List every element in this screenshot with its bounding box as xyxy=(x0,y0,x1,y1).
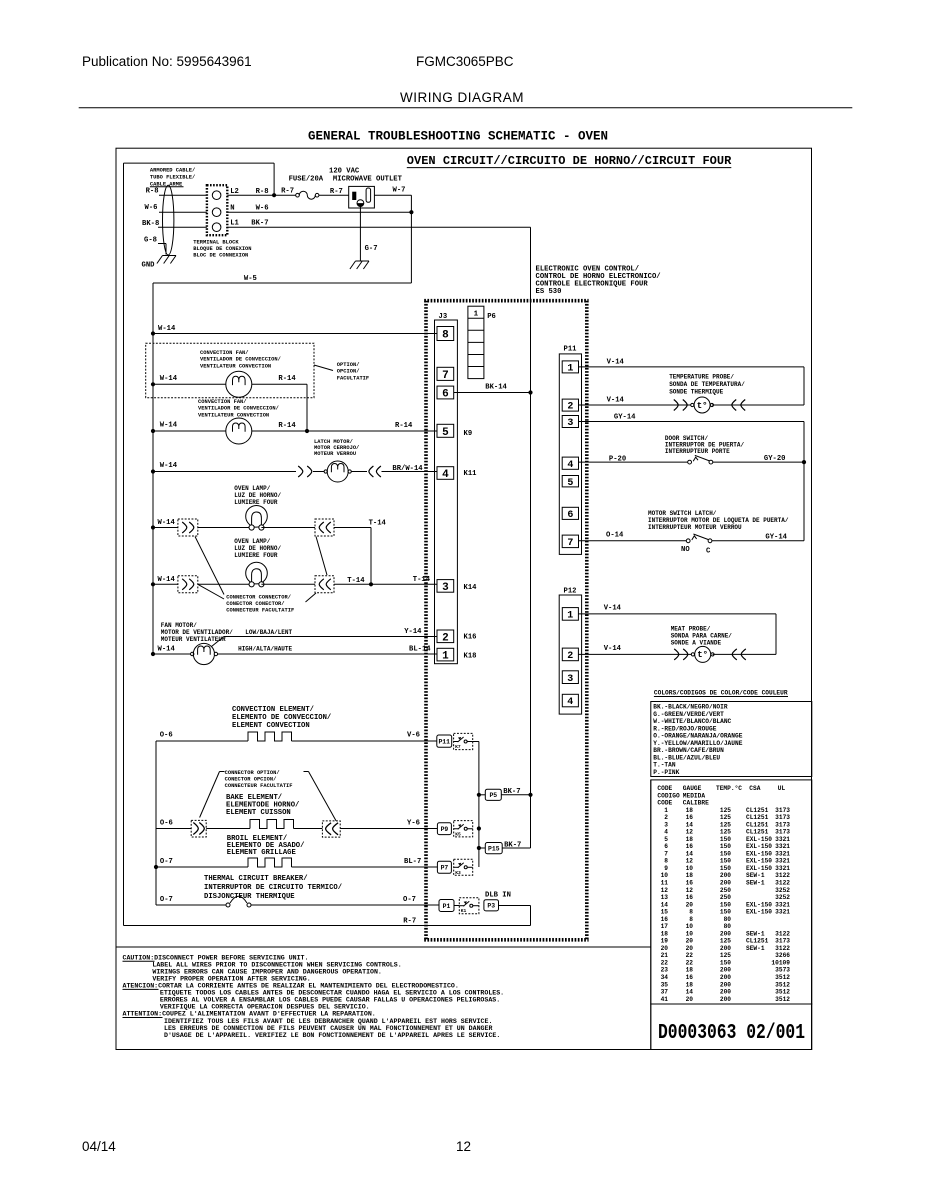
svg-text:1: 1 xyxy=(442,651,449,663)
svg-text:SEW-1: SEW-1 xyxy=(746,945,765,952)
svg-text:9: 9 xyxy=(664,865,668,872)
120 VAC microwave outlet xyxy=(329,168,403,209)
wire W-7 outlet to right vertical xyxy=(374,187,411,283)
J3 pin designator K14 xyxy=(464,584,478,592)
svg-text:CALIBRE: CALIBRE xyxy=(683,800,709,807)
wire O-6 to bake connector xyxy=(156,820,191,829)
svg-text:ATENCION:CORTAR LA CORRIENTE A: ATENCION:CORTAR LA CORRIENTE ANTES DE RE… xyxy=(123,983,459,990)
wire to lamp 2 xyxy=(198,583,252,585)
heating element: broil element xyxy=(248,858,292,867)
svg-text:12: 12 xyxy=(686,887,694,894)
svg-text:ARMORED CABLE/: ARMORED CABLE/ xyxy=(150,168,195,174)
svg-text:CODE: CODE xyxy=(657,800,672,807)
node: O-7 broil branch xyxy=(154,865,158,869)
svg-text:BLOC DE CONNEXION: BLOC DE CONNEXION xyxy=(193,253,248,259)
svg-text:P7: P7 xyxy=(441,865,449,872)
svg-text:18: 18 xyxy=(686,807,694,814)
latch motor label xyxy=(314,439,359,457)
wire GY-14 P11 pin3 xyxy=(579,414,805,541)
page header: WIRING DIAGRAM title xyxy=(400,90,524,105)
svg-text:150: 150 xyxy=(720,901,731,908)
wire T-14 lamp2 to J3 pin 3 xyxy=(334,576,437,585)
heating element: convection element xyxy=(248,732,292,741)
svg-text:CSA: CSA xyxy=(749,785,760,792)
DLB IN label xyxy=(485,892,511,900)
svg-text:BL-14: BL-14 xyxy=(409,646,431,654)
svg-text:ATTENTION:COUPEZ L'ALIMENTATIO: ATTENTION:COUPEZ L'ALIMENTATION AVANT D'… xyxy=(123,1011,376,1018)
svg-text:MOTEUR VERROU: MOTEUR VERROU xyxy=(314,451,356,457)
svg-text:CL1251: CL1251 xyxy=(746,938,769,945)
connector chevrons meat probe right xyxy=(732,649,746,660)
svg-text:3173: 3173 xyxy=(775,814,790,821)
oven lamp 1 label xyxy=(234,485,281,506)
svg-text:1: 1 xyxy=(474,311,479,319)
meat probe xyxy=(691,646,714,662)
svg-text:V-14: V-14 xyxy=(607,359,625,367)
thermal circuit breaker xyxy=(226,896,251,907)
door switch label xyxy=(665,435,745,455)
svg-text:IDENTIFIEZ TOUS LES FILS AVANT: IDENTIFIEZ TOUS LES FILS AVANT DE LES DE… xyxy=(164,1018,492,1025)
motor switch latch label xyxy=(648,510,789,531)
svg-text:150: 150 xyxy=(720,909,731,916)
svg-text:12: 12 xyxy=(456,1139,471,1154)
svg-text:SONDA DE TEMPERATURA/: SONDA DE TEMPERATURA/ xyxy=(669,381,745,388)
wire to P15 xyxy=(479,847,485,849)
svg-text:ELEMENT GRILLAGE: ELEMENT GRILLAGE xyxy=(227,849,297,857)
schematic outer frame xyxy=(116,148,812,1049)
connector P11 xyxy=(559,346,581,555)
svg-text:t°: t° xyxy=(697,401,708,411)
connector (dashed) lamp2 left xyxy=(178,576,198,593)
svg-text:BK.-BLACK/NEGRO/NOIR: BK.-BLACK/NEGRO/NOIR xyxy=(653,704,728,711)
svg-text:200: 200 xyxy=(720,945,731,952)
svg-text:HIGH/ALTA/HAUTE: HIGH/ALTA/HAUTE xyxy=(238,646,292,653)
switch: motor switch latch xyxy=(686,534,712,543)
svg-text:150: 150 xyxy=(720,850,731,857)
svg-text:K5: K5 xyxy=(455,831,461,837)
svg-text:K11: K11 xyxy=(464,470,478,478)
svg-text:UL: UL xyxy=(778,785,786,792)
page header: model number xyxy=(416,54,514,69)
svg-text:R-14: R-14 xyxy=(278,422,296,430)
svg-text:12: 12 xyxy=(686,829,694,836)
svg-text:OVEN CIRCUIT//CIRCUITO DE HORN: OVEN CIRCUIT//CIRCUITO DE HORNO//CIRCUIT… xyxy=(407,154,732,168)
svg-text:125: 125 xyxy=(720,814,731,821)
svg-text:12: 12 xyxy=(686,858,694,865)
svg-text:SEW-1: SEW-1 xyxy=(746,872,765,879)
svg-text:20: 20 xyxy=(661,945,669,952)
terminal block label xyxy=(193,240,251,259)
svg-text:1: 1 xyxy=(567,364,573,375)
wire V-6 convection element to relay P11 xyxy=(292,732,437,742)
svg-text:3512: 3512 xyxy=(775,996,790,1003)
svg-text:2: 2 xyxy=(567,651,573,662)
wire to lamp 1 xyxy=(198,527,252,529)
P11 pin 7 xyxy=(562,535,578,549)
svg-text:CONECTOR OPCION/: CONECTOR OPCION/ xyxy=(225,777,277,783)
svg-text:3512: 3512 xyxy=(775,974,790,981)
svg-text:16: 16 xyxy=(686,894,694,901)
svg-text:ETIQUETE TODOS LOS CABLES ANTE: ETIQUETE TODOS LOS CABLES ANTES DE DESCO… xyxy=(160,990,504,997)
connector chevrons temp probe right xyxy=(732,400,745,411)
svg-text:MOTOR DE VENTILADOR/: MOTOR DE VENTILADOR/ xyxy=(161,629,233,636)
option label with leader xyxy=(314,362,369,381)
svg-text:LUMIERE FOUR: LUMIERE FOUR xyxy=(234,552,278,559)
svg-text:FACULTATIF: FACULTATIF xyxy=(337,375,369,381)
svg-text:5: 5 xyxy=(567,478,573,489)
svg-text:LUZ DE HORNO/: LUZ DE HORNO/ xyxy=(234,545,281,552)
svg-text:CODIGO: CODIGO xyxy=(657,792,680,799)
svg-text:22: 22 xyxy=(686,952,694,959)
svg-text:O-6: O-6 xyxy=(160,820,173,828)
svg-text:VENTILATEUR CONVECTION: VENTILATEUR CONVECTION xyxy=(198,412,269,418)
svg-text:14: 14 xyxy=(686,989,694,996)
J3 pin designator K16 xyxy=(464,634,477,642)
wire P-20 P11 pin4 to door switch xyxy=(579,455,688,463)
wire T-14 lamp1 to junction xyxy=(334,520,387,585)
J3 pin 4 xyxy=(437,467,454,481)
svg-text:CODE: CODE xyxy=(657,785,672,792)
svg-text:3122: 3122 xyxy=(775,945,790,952)
svg-text:34: 34 xyxy=(661,974,669,981)
svg-text:120 VAC: 120 VAC xyxy=(329,168,360,176)
svg-text:3573: 3573 xyxy=(775,967,790,974)
svg-text:200: 200 xyxy=(720,981,731,988)
svg-text:BR.-BROWN/CAFE/BRUN: BR.-BROWN/CAFE/BRUN xyxy=(653,747,724,754)
wire R-14 convection fan to J3 pin 5 xyxy=(252,422,437,431)
convection fan label (option) xyxy=(200,350,281,369)
connector P3 xyxy=(484,900,499,911)
svg-text:22: 22 xyxy=(661,960,669,967)
wire R-8/R-7 from L2 to fuse xyxy=(227,188,296,196)
svg-text:BL-7: BL-7 xyxy=(404,858,421,866)
svg-text:7: 7 xyxy=(567,538,573,549)
svg-text:CONNECTEUR FACULTATIF: CONNECTEUR FACULTATIF xyxy=(225,783,293,789)
svg-text:04/14: 04/14 xyxy=(82,1139,116,1154)
svg-text:TERMINAL BLOCK: TERMINAL BLOCK xyxy=(193,240,239,246)
P11 pin 5 xyxy=(562,476,578,489)
svg-text:BLOQUE DE CONEXION: BLOQUE DE CONEXION xyxy=(193,246,251,252)
svg-text:T.-TAN: T.-TAN xyxy=(653,762,676,769)
svg-text:14: 14 xyxy=(661,901,669,908)
svg-text:CONVECTION FAN/: CONVECTION FAN/ xyxy=(200,350,249,356)
svg-text:125: 125 xyxy=(720,938,731,945)
svg-text:12: 12 xyxy=(661,887,669,894)
oven lamp 2 label xyxy=(234,538,281,559)
connector option label with leaders xyxy=(200,770,337,821)
svg-text:K18: K18 xyxy=(464,653,477,661)
wire BK vertical to relays xyxy=(530,393,532,849)
svg-text:TEMP.°C: TEMP.°C xyxy=(716,785,742,792)
svg-text:VERIFY PROPER OPERATION AFTER: VERIFY PROPER OPERATION AFTER SERVICING. xyxy=(152,976,310,983)
connector chevrons meat probe left xyxy=(674,649,688,660)
svg-text:3122: 3122 xyxy=(775,872,790,879)
svg-text:250: 250 xyxy=(720,887,731,894)
drawing number box xyxy=(651,1004,812,1050)
svg-text:3321: 3321 xyxy=(775,850,790,857)
connector J3 xyxy=(435,313,458,664)
temperature probe xyxy=(691,397,714,413)
svg-text:C: C xyxy=(706,548,711,556)
svg-text:80: 80 xyxy=(724,923,732,930)
J3 pin 7 xyxy=(437,367,454,382)
option dashed box (optional convection fan) xyxy=(146,343,314,398)
svg-text:LUZ DE HORNO/: LUZ DE HORNO/ xyxy=(234,492,281,499)
svg-text:GENERAL TROUBLESHOOTING SCHEMA: GENERAL TROUBLESHOOTING SCHEMATIC - OVEN xyxy=(308,129,608,144)
svg-text:VERIFIQUE LA CORRECTA OPERACIO: VERIFIQUE LA CORRECTA OPERACION DESPUES … xyxy=(160,1004,370,1011)
svg-text:EXL-150: EXL-150 xyxy=(746,843,772,850)
P11 pin 6 xyxy=(562,507,578,521)
svg-text:200: 200 xyxy=(720,974,731,981)
J3 pin designator K9 xyxy=(464,430,473,438)
svg-text:6: 6 xyxy=(567,510,573,521)
svg-text:18: 18 xyxy=(686,967,694,974)
wire W-14 to lamp 2 connector xyxy=(153,576,178,584)
svg-text:16: 16 xyxy=(686,880,694,887)
svg-text:W-7: W-7 xyxy=(393,187,406,195)
svg-text:DISJONCTEUR THERMIQUE: DISJONCTEUR THERMIQUE xyxy=(204,893,295,901)
svg-text:125: 125 xyxy=(720,952,731,959)
P11 pin 4 xyxy=(562,457,578,471)
wire BK-7 P5 to bus xyxy=(501,788,530,796)
wire W-14 to J3 pin 8 xyxy=(153,325,437,334)
svg-text:6: 6 xyxy=(442,389,449,401)
node: R-14 parallel join xyxy=(305,429,309,433)
svg-text:SONDE A VIANDE: SONDE A VIANDE xyxy=(671,640,722,647)
svg-text:R-14: R-14 xyxy=(278,375,296,383)
svg-text:18: 18 xyxy=(686,836,694,843)
svg-text:P11: P11 xyxy=(564,346,578,354)
svg-text:125: 125 xyxy=(720,807,731,814)
svg-text:3173: 3173 xyxy=(775,807,790,814)
svg-text:V-14: V-14 xyxy=(607,397,625,405)
svg-text:125: 125 xyxy=(720,829,731,836)
wire BK-7 terminal L1 to control board xyxy=(227,219,530,392)
wire meat probe to loop xyxy=(713,653,777,655)
svg-text:BK-8: BK-8 xyxy=(142,220,159,228)
convection fan label (main) xyxy=(198,399,279,418)
C terminal label xyxy=(706,548,711,556)
svg-text:P11: P11 xyxy=(438,739,450,746)
svg-text:VENTILATEUR CONVECTION: VENTILATEUR CONVECTION xyxy=(200,363,271,369)
wire W-5 down to left W feed xyxy=(153,275,411,654)
svg-text:2: 2 xyxy=(664,814,668,821)
svg-text:TUBO FLEXIBLE/: TUBO FLEXIBLE/ xyxy=(150,175,195,181)
wire O-7 to thermal breaker xyxy=(156,896,226,905)
bake element label xyxy=(226,794,299,817)
wire O-7 breaker to relay P1 xyxy=(251,896,439,905)
ground GND (armored cable) xyxy=(142,256,177,270)
svg-text:23: 23 xyxy=(661,967,669,974)
terminal label L1 xyxy=(230,219,239,227)
terminal label N xyxy=(230,204,234,212)
svg-text:W-14: W-14 xyxy=(158,576,176,584)
svg-text:WIRINGS ERRORS CAN CAUSE IMPRO: WIRINGS ERRORS CAN CAUSE IMPROPER AND DA… xyxy=(152,969,382,976)
svg-text:P12: P12 xyxy=(564,588,577,596)
armored cable label xyxy=(150,168,195,188)
motor: convection fan xyxy=(226,418,252,444)
svg-text:10: 10 xyxy=(686,865,694,872)
svg-text:125: 125 xyxy=(720,821,731,828)
connector (dashed) lamp1 right xyxy=(315,519,334,536)
svg-text:10: 10 xyxy=(661,872,669,879)
svg-text:EXL-150: EXL-150 xyxy=(746,858,772,865)
svg-text:ELEMENTO DE CONVECCION/: ELEMENTO DE CONVECCION/ xyxy=(232,714,331,722)
svg-text:W-14: W-14 xyxy=(158,325,176,333)
svg-text:MICROWAVE OUTLET: MICROWAVE OUTLET xyxy=(333,176,403,184)
svg-text:ERRORES AL VOLVER A ENSAMBLAR: ERRORES AL VOLVER A ENSAMBLAR LOS CABLES… xyxy=(160,997,500,1004)
connector (dashed) bake right xyxy=(322,821,340,837)
svg-text:8: 8 xyxy=(689,909,693,916)
svg-text:V-14: V-14 xyxy=(604,645,622,653)
svg-text:Y-14: Y-14 xyxy=(404,628,422,636)
wire bake element to connector xyxy=(294,828,323,830)
svg-text:EXL-150: EXL-150 xyxy=(746,850,772,857)
wire Y-14 LOW speed to J3 pin 2 xyxy=(212,628,438,647)
svg-text:EXL-150: EXL-150 xyxy=(746,836,772,843)
svg-text:MEDIDA: MEDIDA xyxy=(683,792,706,799)
svg-text:THERMAL CIRCUIT BREAKER/: THERMAL CIRCUIT BREAKER/ xyxy=(204,875,308,883)
color code table title xyxy=(654,690,788,697)
svg-text:G-7: G-7 xyxy=(365,245,378,253)
svg-text:EXL-150: EXL-150 xyxy=(746,865,772,872)
svg-text:3321: 3321 xyxy=(775,843,790,850)
J3 pin 1 xyxy=(437,648,454,662)
svg-text:3252: 3252 xyxy=(775,887,790,894)
P11 pin 2 xyxy=(562,399,578,413)
svg-text:5: 5 xyxy=(442,427,449,439)
svg-text:10: 10 xyxy=(686,923,694,930)
node: GY junction xyxy=(802,460,806,464)
svg-text:N: N xyxy=(230,204,234,212)
svg-text:18: 18 xyxy=(686,981,694,988)
svg-text:R-7: R-7 xyxy=(330,188,343,196)
wire BK-14 J3 pin6 to BK vertical xyxy=(454,384,531,393)
connector (dashed) bake left xyxy=(191,820,206,837)
connector chevrons latch motor right xyxy=(369,466,381,477)
svg-text:CL1251: CL1251 xyxy=(746,807,769,814)
wire R-7 fuse to outlet xyxy=(319,188,349,196)
svg-text:R-7: R-7 xyxy=(281,188,294,196)
P12 pin 4 xyxy=(562,694,578,708)
wire K7 to BK-7 bus xyxy=(473,742,479,868)
svg-text:LABEL ALL WIRES PRIOR TO DISCO: LABEL ALL WIRES PRIOR TO DISCONNECTION W… xyxy=(152,962,401,969)
svg-text:W-14: W-14 xyxy=(160,375,178,383)
svg-text:LUMIERE FOUR: LUMIERE FOUR xyxy=(234,499,278,506)
wire W-14 to latch motor xyxy=(153,462,296,472)
svg-text:3173: 3173 xyxy=(775,829,790,836)
svg-text:37: 37 xyxy=(661,989,669,996)
svg-text:DLB IN: DLB IN xyxy=(485,892,511,900)
J3 pin 3 xyxy=(437,580,454,594)
svg-text:18: 18 xyxy=(661,930,669,937)
wire to P5 xyxy=(479,794,485,796)
svg-text:O-14: O-14 xyxy=(606,532,624,540)
node: P15 junction xyxy=(477,846,481,850)
svg-text:MOTOR SWITCH LATCH/: MOTOR SWITCH LATCH/ xyxy=(648,510,717,517)
wire W-14 to convection fan xyxy=(153,422,226,432)
wire R-7 P3 to bottom loop xyxy=(499,906,531,926)
svg-text:3122: 3122 xyxy=(775,930,790,937)
wire P1 to K1 xyxy=(454,905,459,907)
svg-text:W-6: W-6 xyxy=(145,204,158,212)
svg-text:200: 200 xyxy=(720,967,731,974)
svg-text:EXL-150: EXL-150 xyxy=(746,909,772,916)
svg-text:MOTEUR VENTILATEUR: MOTEUR VENTILATEUR xyxy=(161,636,226,643)
terminal block xyxy=(207,185,227,235)
connector (dashed) lamp2 right xyxy=(315,576,334,593)
fan motor label xyxy=(161,622,233,643)
svg-text:20: 20 xyxy=(686,996,694,1003)
node: BK-14 junction xyxy=(528,390,532,394)
svg-text:R-7: R-7 xyxy=(403,918,416,926)
svg-text:K1: K1 xyxy=(461,908,467,914)
svg-text:CONNECTOR OPTION/: CONNECTOR OPTION/ xyxy=(225,770,280,776)
svg-text:P6: P6 xyxy=(487,313,496,321)
temperature probe label xyxy=(669,374,745,396)
svg-text:INTERRUPTEUR PORTE: INTERRUPTEUR PORTE xyxy=(665,448,730,455)
NO terminal label xyxy=(681,546,690,554)
relay K1 (DLB) xyxy=(459,898,479,915)
svg-text:FGMC3065PBC: FGMC3065PBC xyxy=(416,54,514,69)
svg-text:Y.-YELLOW/AMARILLO/JAUNE: Y.-YELLOW/AMARILLO/JAUNE xyxy=(653,740,742,747)
svg-text:O-7: O-7 xyxy=(160,858,173,866)
svg-text:t°: t° xyxy=(697,650,708,660)
svg-text:20: 20 xyxy=(686,938,694,945)
node: K5 output junction xyxy=(477,826,481,830)
J3 pin designator K11 xyxy=(464,470,478,478)
svg-text:P15: P15 xyxy=(488,845,500,852)
wire gauge table xyxy=(651,780,812,1004)
wire R-7 bottom run xyxy=(124,918,531,926)
svg-text:OVEN LAMP/: OVEN LAMP/ xyxy=(234,538,270,545)
svg-text:3173: 3173 xyxy=(775,938,790,945)
P12 pin 2 xyxy=(562,648,578,662)
svg-text:3266: 3266 xyxy=(775,952,790,959)
svg-text:200: 200 xyxy=(720,989,731,996)
wire BL-7 broil to relay P7 xyxy=(292,858,438,867)
svg-text:W-14: W-14 xyxy=(158,519,176,527)
svg-text:13: 13 xyxy=(661,894,669,901)
wire probe to loop xyxy=(712,404,804,406)
circuit subtitle xyxy=(407,154,732,168)
svg-text:R.-RED/ROJO/ROUGE: R.-RED/ROJO/ROUGE xyxy=(653,725,716,732)
svg-text:BK-7: BK-7 xyxy=(251,219,268,227)
J3 pin 8 xyxy=(437,327,454,342)
P12 pin 1 xyxy=(562,608,578,622)
svg-text:18: 18 xyxy=(686,872,694,879)
motor: latch motor xyxy=(324,461,351,482)
svg-text:T-14: T-14 xyxy=(413,576,431,584)
svg-text:41: 41 xyxy=(661,996,669,1003)
J3 pin 5 xyxy=(437,424,454,439)
svg-text:7: 7 xyxy=(664,850,668,857)
wire O-14 P11 pin7 to latch switch xyxy=(579,532,687,541)
svg-text:14: 14 xyxy=(686,821,694,828)
svg-text:Y-6: Y-6 xyxy=(407,820,420,828)
svg-text:W-6: W-6 xyxy=(256,204,269,212)
motor: fan motor xyxy=(191,643,218,664)
connector P6 xyxy=(468,306,496,378)
svg-text:150: 150 xyxy=(720,960,731,967)
svg-text:CONECTOR CONECTOR/: CONECTOR CONECTOR/ xyxy=(226,601,284,607)
svg-text:ELEMENT CONVECTION: ELEMENT CONVECTION xyxy=(232,722,310,730)
connector P12 xyxy=(559,588,581,715)
wire W-14 to lamp 1 connector xyxy=(153,519,178,528)
svg-text:150: 150 xyxy=(720,836,731,843)
svg-text:200: 200 xyxy=(720,880,731,887)
thermal circuit breaker label xyxy=(204,875,342,901)
